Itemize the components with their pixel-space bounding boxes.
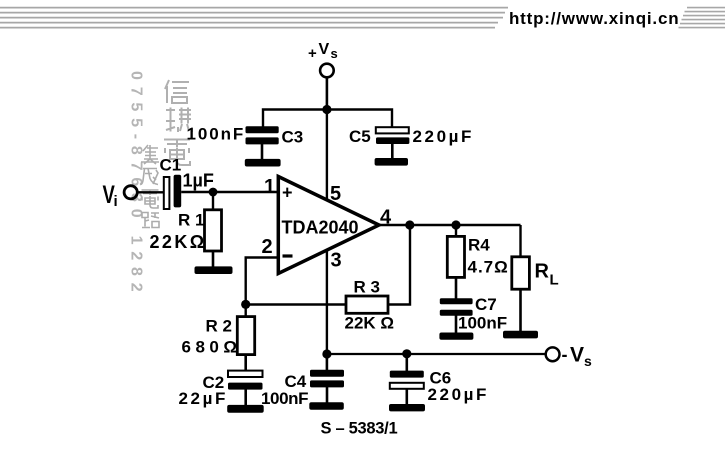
svg-text:+: + (282, 183, 293, 203)
svg-text:S – 5383/1: S – 5383/1 (321, 420, 398, 438)
op-amp U1 TDA2040 (278, 177, 379, 274)
svg-text:100nF: 100nF (187, 125, 246, 144)
svg-text:V: V (570, 344, 584, 367)
capacitor C1 (164, 175, 181, 209)
header banner lines right (679, 8, 725, 28)
node output R3 (405, 220, 414, 229)
svg-text:5: 5 (330, 183, 341, 205)
ground R1 (195, 266, 233, 274)
svg-text:R: R (535, 261, 550, 283)
svg-text:i: i (114, 193, 118, 210)
ground RL (503, 331, 538, 339)
svg-text:http://www.xinqi.cn: http://www.xinqi.cn (509, 9, 679, 28)
svg-text:22KΩ: 22KΩ (150, 232, 207, 252)
wire RL to ground (519, 289, 522, 332)
wire output pin4 (379, 224, 521, 226)
ground C4 (309, 402, 344, 410)
wire output to RL (519, 225, 521, 257)
wire +Vs down (326, 78, 329, 110)
svg-text:C7: C7 (475, 295, 497, 314)
label +Vs (308, 41, 338, 62)
watermark xinqi chinese (164, 80, 192, 165)
wire -Vs rail (327, 353, 545, 355)
svg-text:220µF: 220µF (413, 127, 475, 146)
svg-text:-: - (562, 345, 568, 365)
wire pin2 (246, 258, 279, 318)
svg-text:+: + (308, 45, 317, 62)
wire top rail (263, 110, 392, 128)
wire R4 to C7 (455, 277, 458, 299)
svg-text:C1: C1 (160, 156, 182, 175)
capacitor C3 (246, 126, 279, 160)
node output R4 (451, 220, 460, 229)
capacitor C6 (390, 371, 424, 405)
label RL (535, 261, 559, 289)
wire rail to C6 (405, 354, 408, 372)
svg-text:V: V (319, 41, 330, 58)
capacitor C5 (376, 127, 410, 159)
svg-text:22µF: 22µF (179, 389, 229, 408)
ground C2 (227, 405, 264, 413)
node feedback junction (241, 300, 250, 309)
wire R2 to C2 (244, 355, 247, 372)
terminal +Vs (320, 64, 334, 78)
capacitor C2 (228, 371, 263, 406)
svg-text:1: 1 (264, 176, 275, 198)
node rail pin3 C4 (322, 349, 331, 358)
node +Vs rail (322, 105, 331, 114)
svg-text:3: 3 (331, 250, 342, 272)
ground C7 (439, 333, 473, 340)
resistor R4 (447, 236, 464, 277)
svg-text:2: 2 (262, 236, 273, 258)
svg-text:220µF: 220µF (428, 385, 490, 404)
wire Vi to C1 (138, 191, 164, 193)
wire pin3 down (326, 250, 328, 355)
node junction input (209, 188, 218, 197)
wire junction to R1 (212, 192, 214, 211)
wire output to R4 (455, 225, 457, 237)
resistor R3 (346, 296, 388, 313)
wire feedback to R3 (246, 303, 346, 305)
svg-text:R4: R4 (468, 236, 490, 255)
svg-text:R 2: R 2 (206, 317, 232, 336)
svg-text:C5: C5 (349, 127, 371, 146)
svg-text:R 3: R 3 (354, 278, 380, 297)
ground C3 (245, 159, 281, 167)
svg-text:R 1: R 1 (178, 211, 204, 230)
input terminal Vi (103, 180, 138, 210)
svg-text:1µF: 1µF (183, 171, 214, 191)
wire R1 to ground (212, 251, 215, 268)
capacitor C4 (310, 370, 344, 403)
svg-text:TDA2040: TDA2040 (282, 218, 359, 238)
svg-text:L: L (550, 272, 559, 289)
wire pin5 from rail (326, 110, 328, 202)
wire R3 to output (388, 225, 410, 305)
minus input mark (283, 254, 293, 257)
svg-text:100nF: 100nF (261, 389, 308, 408)
svg-text:22K Ω: 22K Ω (345, 314, 395, 333)
resistor R2 (237, 317, 254, 355)
svg-text:4.7Ω: 4.7Ω (468, 258, 509, 277)
resistor RL (512, 257, 530, 289)
wire C1 to pin1 (181, 191, 278, 193)
svg-text:s: s (331, 46, 338, 61)
terminal -Vs (546, 347, 560, 361)
resistor R1 (205, 210, 222, 251)
wire rail to C4 (326, 354, 329, 371)
watermark jicheng chinese (141, 145, 159, 228)
svg-text:C3: C3 (282, 128, 304, 147)
capacitor C7 (440, 298, 473, 333)
svg-text:100nF: 100nF (458, 314, 507, 333)
label -Vs (562, 344, 593, 370)
svg-text:s: s (584, 353, 592, 369)
svg-text:680Ω: 680Ω (182, 338, 242, 357)
ground C6 (389, 404, 425, 411)
node rail C6 (402, 349, 411, 358)
header banner lines left (0, 8, 508, 28)
ground C5 (375, 158, 408, 166)
